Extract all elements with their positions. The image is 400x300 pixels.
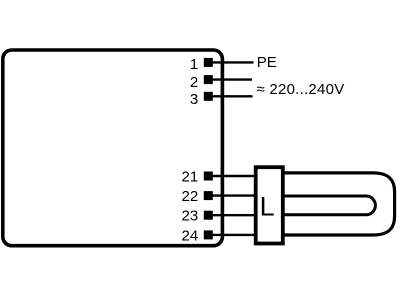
terminal square 3 — [204, 92, 213, 101]
terminal square 21 — [204, 172, 213, 181]
svg-text:PE: PE — [257, 54, 277, 71]
terminal square 2 — [204, 75, 213, 84]
svg-text:1: 1 — [190, 56, 198, 73]
svg-text:22: 22 — [182, 188, 199, 205]
lamp tube outer outline — [281, 173, 395, 235]
wire terminal 1 to PE — [210, 61, 254, 63]
svg-text:L: L — [260, 192, 275, 222]
lamp tube inner fold — [281, 196, 375, 215]
svg-text:23: 23 — [182, 208, 199, 225]
wire terminal 2 mains — [210, 78, 252, 80]
svg-text:2: 2 — [190, 74, 198, 91]
svg-text:21: 21 — [182, 169, 199, 186]
svg-text:24: 24 — [182, 227, 199, 244]
lamp base — [256, 167, 283, 243]
wire terminal 22 to lamp — [210, 194, 258, 196]
terminal square 23 — [204, 211, 213, 220]
terminal square 1 — [204, 58, 213, 67]
terminal square 22 — [204, 191, 213, 200]
svg-text:3: 3 — [190, 91, 198, 108]
ballast box outline — [3, 50, 223, 246]
wire terminal 24 to lamp — [210, 234, 258, 236]
wire terminal 23 to lamp — [210, 214, 258, 216]
terminal square 24 — [204, 230, 213, 239]
wire terminal 3 mains — [210, 95, 253, 97]
wire terminal 21 to lamp — [210, 175, 258, 177]
svg-text:≈ 220...240V: ≈ 220...240V — [257, 81, 345, 98]
